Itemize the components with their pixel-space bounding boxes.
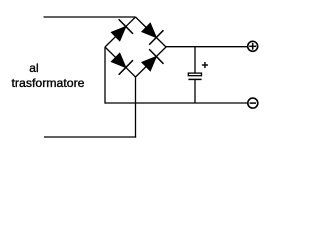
svg-text:trasformatore: trasformatore [12,76,85,90]
label: capacitor polarity plus sign [202,62,208,68]
wire: bridge side B-R (diode D4 body line) [136,47,167,77]
wire: bridge side T-R (diode D2 body line) [136,17,167,47]
wire: plus rail from bridge right node to + terminal [166,46,247,48]
capacitor C1 (polarized electrolytic filter capacitor) [188,73,201,79]
wire: drop from bridge left node down to minus rail [104,47,106,104]
label: "al trasformatore" (to the transformer) [12,61,85,90]
terminal: positive output (+) [248,41,258,51]
wire: top AC lead from transformer to bridge top node [44,16,136,18]
svg-text:al: al [29,61,38,75]
wire: drop from bridge bottom node down to bottom AC lead [135,77,137,138]
diode D4 (bridge bottom-right, anode at AC bottom, cathode toward plus node) [142,49,164,71]
diode D1 (bridge top-left, anode at minus node, cathode toward AC top) [111,19,133,41]
wire: capacitor top lead (junction on plus rail) [194,47,196,73]
wire: capacitor bottom lead to minus rail [194,79,196,103]
wire: bottom AC lead from transformer [44,136,136,138]
diode D3 (bridge bottom-left, anode at minus node, cathode toward AC bottom) [111,53,133,75]
wire: minus rail from bridge left node to - terminal [105,102,247,104]
diode D2 (bridge top-right, anode at AC top, cathode toward plus node) [142,23,164,45]
wire: bridge side L-B (diode D3 body line) [105,47,136,77]
wire: bridge side L-T (diode D1 body line) [105,17,136,47]
terminal: negative output (-) [248,98,258,108]
